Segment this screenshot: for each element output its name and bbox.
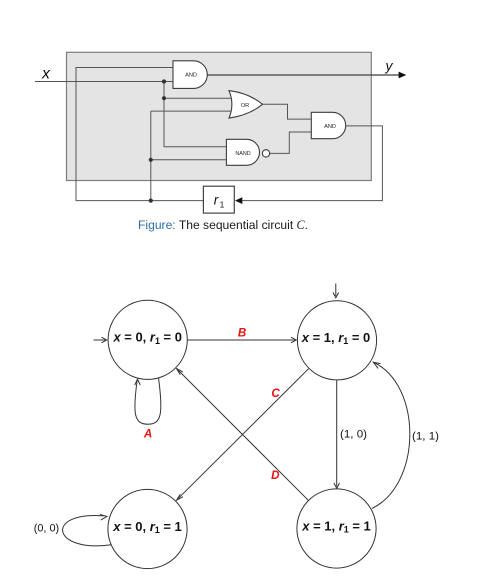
svg-text:AND: AND (185, 73, 197, 79)
wire x branch vertical (164, 82, 231, 147)
svg-text:(1, 1): (1, 1) (412, 431, 439, 443)
arrow initial state marker above S2 (333, 284, 339, 298)
wire feedback bottom from r1 (76, 68, 203, 201)
wire y output (207, 74, 400, 76)
state S1 x=0 r1=0 (108, 300, 187, 379)
circuit enclosure box (67, 52, 372, 180)
edge (0,0) self-loop on S3 (63, 515, 111, 546)
svg-text:OR: OR (241, 103, 249, 109)
svg-text:r: r (214, 193, 219, 208)
svg-text:1: 1 (220, 200, 225, 210)
svg-text:x = 0, r1 = 0: x = 0, r1 = 0 (112, 330, 181, 346)
svg-text:(0, 0): (0, 0) (34, 523, 60, 535)
wire OR output to AND2 (263, 104, 312, 119)
svg-text:x = 1, r1 = 1: x = 1, r1 = 1 (301, 518, 370, 534)
svg-text:Figure: The sequential circuit: Figure: The sequential circuit C. (138, 218, 308, 232)
node junction dot x/OR (162, 96, 166, 100)
edge B S1 to S2 (188, 337, 297, 343)
edge A self-loop on S1 (135, 378, 161, 424)
svg-text:(1, 0): (1, 0) (340, 429, 367, 441)
register r1 box (203, 186, 234, 213)
nand-gate NAND1 (226, 139, 269, 165)
edge (1,1) S4 to S2 arc (372, 362, 410, 508)
wire AND2 output feedback to r1 (237, 126, 382, 201)
svg-text:B: B (238, 327, 246, 340)
svg-text:x: x (41, 66, 51, 83)
svg-text:AND: AND (324, 124, 336, 130)
state S4 x=1 r1=1 (297, 489, 376, 568)
state S3 x=0 r1=1 (108, 489, 187, 568)
node junction dot r1/NAND (149, 158, 153, 162)
arrowhead y output (399, 72, 407, 79)
node junction dot x/AND (162, 79, 166, 83)
wire NAND output to AND2 (270, 132, 312, 153)
edge (1,0) S2 to S4 (334, 380, 340, 488)
and-gate AND1 (173, 61, 207, 89)
wire x input (35, 81, 173, 83)
svg-text:x = 1, r1 = 0: x = 1, r1 = 0 (301, 330, 370, 346)
wire feedback branch vertical r1 (151, 111, 231, 201)
edge D S4 to S1 (177, 369, 309, 501)
edge C S2 to S3 (177, 369, 309, 501)
svg-text:y: y (385, 58, 394, 74)
and-gate AND2 (311, 112, 345, 138)
or-gate OR1 (229, 91, 263, 119)
node junction dot r1 feedback (149, 199, 153, 203)
svg-text:C: C (271, 387, 280, 400)
svg-text:NAND: NAND (235, 151, 250, 157)
svg-text:x = 0, r1 = 1: x = 0, r1 = 1 (112, 519, 181, 535)
svg-text:A: A (143, 428, 152, 441)
svg-text:D: D (271, 469, 280, 482)
state S2 x=1 r1=0 (297, 301, 376, 380)
arrow start marker into S1 (94, 337, 107, 343)
arrowhead into r1 (235, 197, 242, 204)
